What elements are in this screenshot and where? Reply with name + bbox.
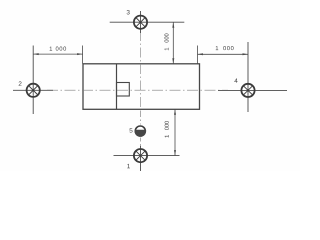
dimension bottom-middle arrowheads — [174, 109, 176, 115]
microphone position 3 symbol — [134, 16, 147, 29]
microphone position 4 symbol — [241, 84, 254, 97]
label 5 — [130, 128, 133, 132]
dimension top-middle vertical 1000 line — [172, 22, 174, 64]
vertical centerline through machine — [140, 31, 142, 109]
machine small square detail — [117, 83, 130, 97]
microphone position 4 crosshair — [218, 42, 287, 112]
dimension bottom-middle vertical 1000 line — [174, 109, 176, 155]
dimension bottom-middle text 1 000 rotated — [165, 121, 169, 137]
vertical centerline below machine (above position 5) — [140, 111, 142, 125]
machine body rectangle — [83, 64, 200, 110]
dimension top-middle arrowheads — [172, 22, 174, 28]
dimension top-left arrowheads — [33, 53, 39, 55]
microphone position 2 crosshair — [13, 46, 53, 115]
microphone position 1 crosshair — [114, 146, 180, 171]
dimension top-right 1000 line — [198, 46, 249, 64]
dimension top-right text 1 000 — [216, 46, 234, 50]
dimension top-left 1000 line — [33, 46, 82, 64]
horizontal centerline through machine — [47, 89, 228, 91]
microphone position 2 symbol — [27, 84, 40, 97]
machine divider line — [116, 64, 118, 110]
label 3 — [127, 10, 130, 14]
label 2 — [19, 81, 22, 85]
label 1 — [127, 164, 130, 168]
label 4 — [234, 78, 237, 82]
dimension top-right arrowheads — [198, 53, 204, 55]
dimension top-middle text 1 000 rotated — [164, 34, 168, 51]
dimension top-left text 1 000 — [50, 47, 66, 51]
microphone position 3 crosshair — [110, 11, 185, 33]
vertical centerline between position 5 and position 1 — [140, 138, 142, 148]
microphone position 5 symbol (overhead, half-filled circle) — [135, 125, 147, 137]
microphone position 1 symbol — [134, 149, 147, 162]
